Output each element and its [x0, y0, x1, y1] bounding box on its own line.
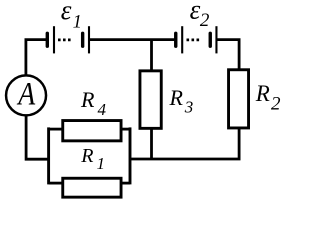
battery E1 cell1 short thick plate — [46, 33, 49, 46]
label epsilon 1 — [61, 0, 82, 33]
battery E2 cell2 long thin plate — [215, 26, 217, 53]
svg-text:2: 2 — [200, 10, 210, 31]
stub wire R1 to right bar — [121, 182, 130, 185]
wire top middle (E1 to E2) — [89, 38, 175, 41]
svg-text:1: 1 — [97, 154, 106, 173]
battery E2 cell2 short thick plate — [209, 33, 212, 46]
ammeter A circle — [6, 75, 46, 115]
battery E1 cell2 long thin plate — [88, 26, 90, 53]
resistor R1 body — [63, 178, 121, 197]
svg-text:A: A — [16, 75, 35, 112]
wire top-left corner (battery E1 to ammeter) — [26, 40, 47, 76]
stub wire R4 to right bar — [121, 128, 130, 131]
svg-text:2: 2 — [271, 94, 281, 115]
label R4 — [80, 87, 107, 119]
svg-text:R: R — [80, 87, 95, 112]
svg-text:1: 1 — [73, 13, 82, 33]
svg-text:R: R — [255, 81, 270, 106]
label epsilon 2 — [190, 0, 210, 31]
wire ammeter bottom to parallel block left — [26, 115, 48, 160]
stub wire left to R1 — [49, 182, 63, 185]
wire R2 bottom to bottom bus — [130, 129, 239, 160]
label R3 — [169, 85, 194, 116]
battery E2 dotted cells link — [187, 39, 200, 42]
stub wire left to R4 — [49, 128, 63, 131]
parallel block left bar — [47, 127, 50, 184]
svg-text:R: R — [80, 145, 93, 167]
svg-text:R: R — [169, 85, 184, 110]
battery E1 dotted cells link — [58, 39, 71, 42]
label R1 — [80, 145, 105, 173]
battery E2 cell1 short thick plate — [174, 33, 177, 46]
wire top-right corner (E2 to R2 top) — [217, 40, 240, 70]
battery E1 cell1 long thin plate — [53, 26, 55, 53]
battery E1 cell2 short thick plate — [81, 33, 84, 46]
wire junction down to R3 top — [150, 40, 153, 71]
svg-text:4: 4 — [98, 100, 107, 119]
wire R3 bottom to bus — [150, 129, 153, 160]
parallel block right bar — [129, 127, 132, 184]
label R2 — [255, 81, 281, 114]
resistor R4 body — [63, 121, 121, 141]
resistor R2 body — [229, 70, 249, 128]
resistor R3 body — [140, 71, 161, 129]
svg-text:3: 3 — [184, 98, 194, 117]
svg-text:ε: ε — [61, 0, 72, 25]
battery E2 cell1 long thin plate — [181, 26, 183, 53]
